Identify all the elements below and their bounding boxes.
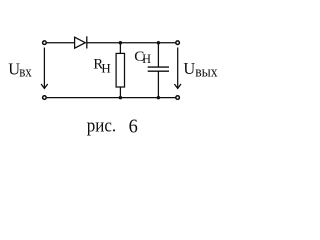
svg-text:вых: вых [195, 64, 218, 80]
svg-text:Н: Н [101, 61, 110, 75]
svg-text:U: U [183, 59, 195, 78]
svg-text:вх: вх [19, 64, 32, 80]
svg-text:рис.: рис. [87, 114, 116, 135]
svg-text:Н: Н [142, 52, 151, 66]
svg-text:6: 6 [129, 115, 138, 138]
